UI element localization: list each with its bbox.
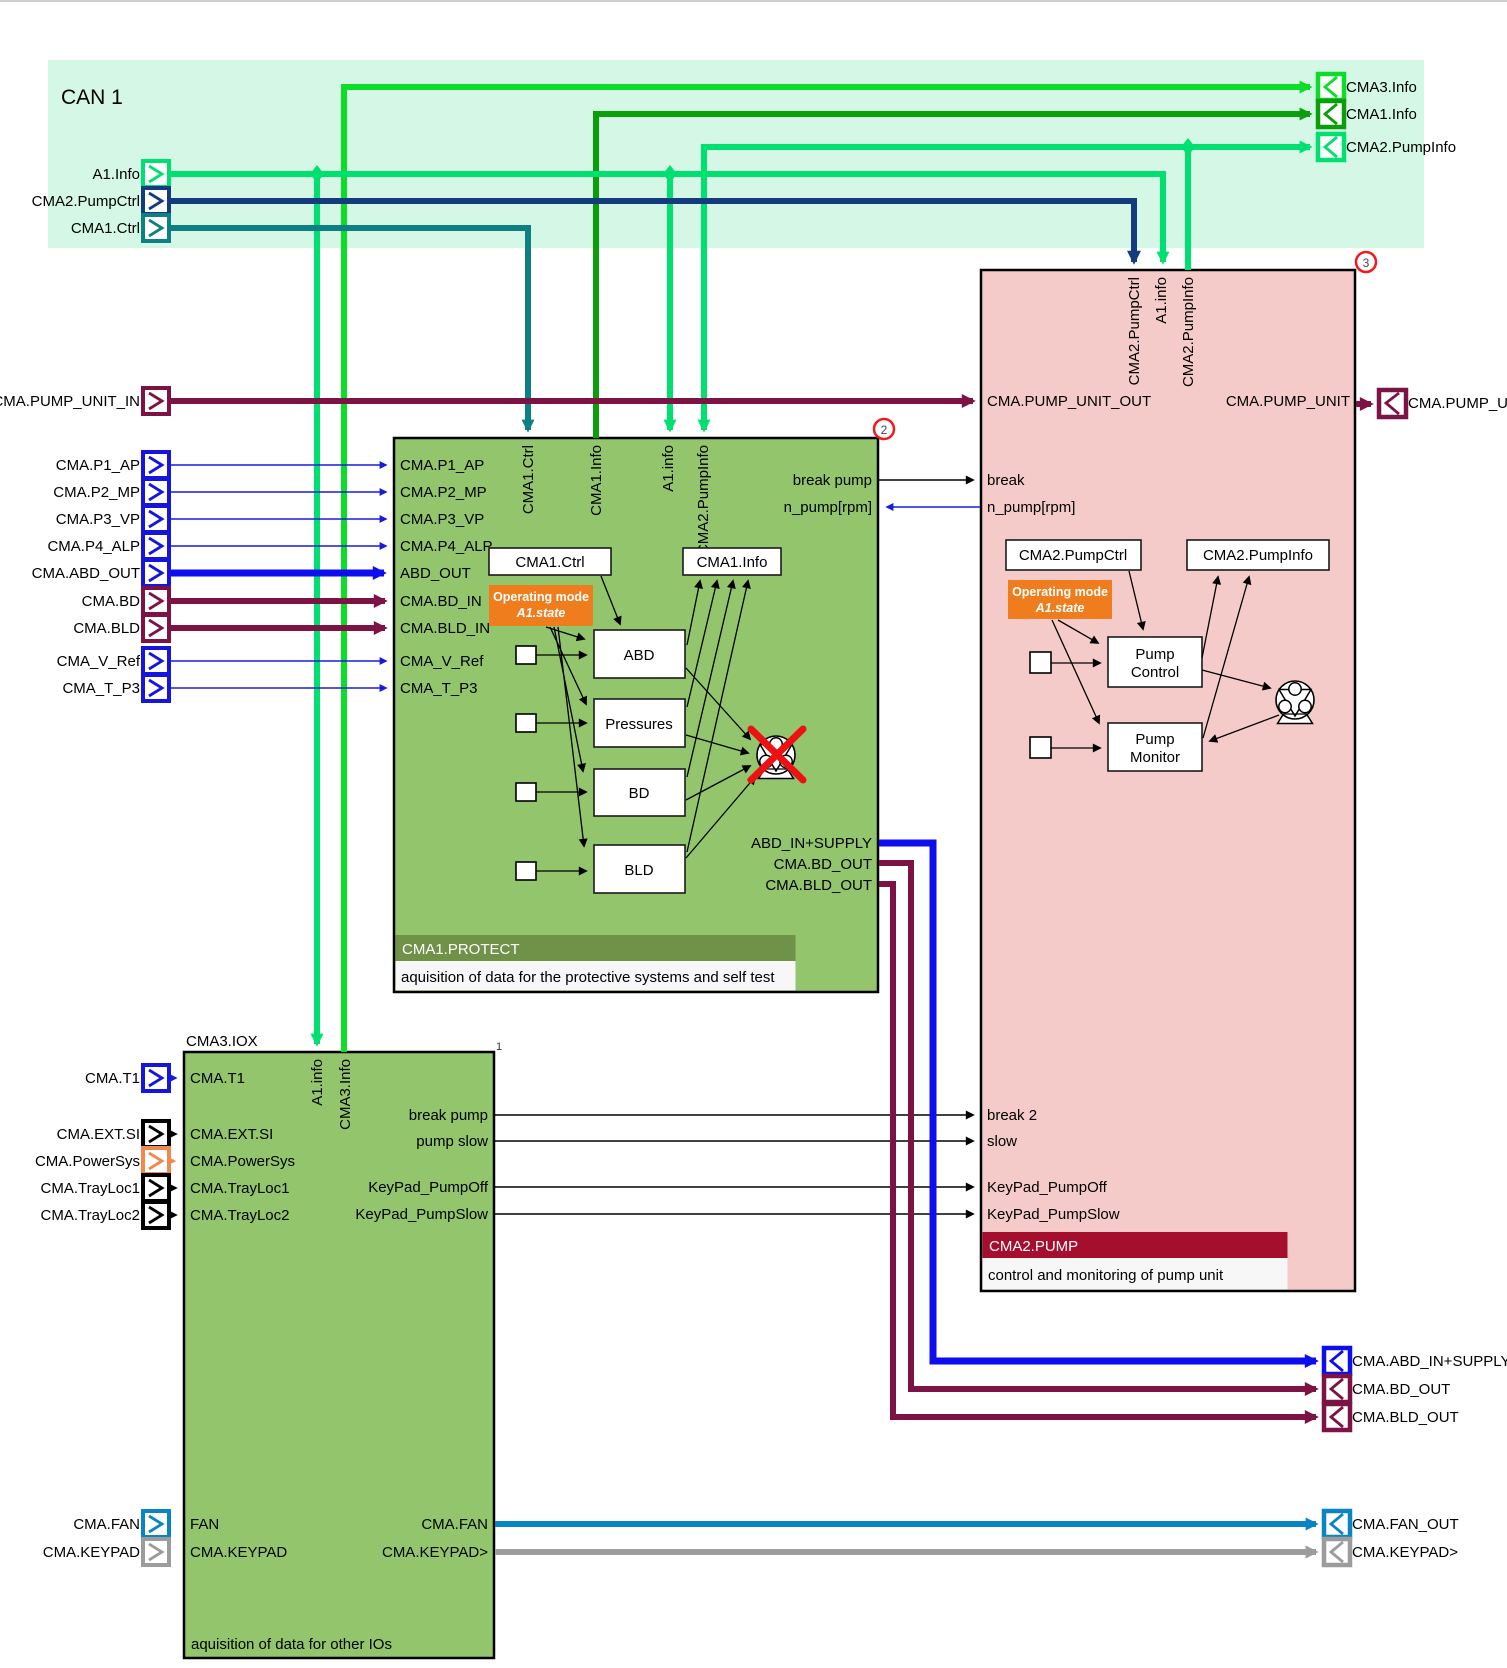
wire CMA3.Info (IOX top to CAN port) — [344, 87, 1310, 1052]
block CMA1.PROTECT — [394, 438, 878, 992]
svg-text:CMA.FAN_OUT: CMA.FAN_OUT — [1352, 1516, 1459, 1533]
svg-text:CMA1.Ctrl: CMA1.Ctrl — [71, 220, 140, 237]
svg-text:CMA.ABD_OUT: CMA.ABD_OUT — [32, 565, 140, 582]
svg-text:CMA2.PUMP: CMA2.PUMP — [989, 1238, 1078, 1255]
svg-text:KeyPad_PumpOff: KeyPad_PumpOff — [368, 1179, 489, 1196]
svg-text:Pump: Pump — [1135, 731, 1174, 748]
port CMA.P4_ALP (input) — [47, 533, 169, 559]
svg-text:CMA.BD_OUT: CMA.BD_OUT — [1352, 1381, 1450, 1398]
port CMA.P3_VP (input) — [56, 506, 169, 532]
wire A1.Info branch to PROTECT — [667, 174, 673, 430]
svg-text:CMA2.PumpInfo: CMA2.PumpInfo — [695, 445, 712, 555]
port CMA.BLD_OUT (output) — [1324, 1404, 1459, 1430]
port CMA1.Info (output) — [1318, 101, 1417, 127]
box Pump Monitor — [1108, 723, 1202, 771]
wire A1.Info branch to CMA3.IOX — [314, 174, 320, 1044]
svg-text:CMA.BLD_IN: CMA.BLD_IN — [400, 620, 490, 637]
wire CMA1.Info (PROTECT top to CAN port) — [596, 114, 1310, 438]
svg-text:slow: slow — [987, 1133, 1017, 1150]
svg-text:CMA.TrayLoc2: CMA.TrayLoc2 — [41, 1207, 140, 1224]
arrow Pump Control to CMA2.PumpInfo — [1202, 577, 1218, 658]
svg-text:CMA_T_P3: CMA_T_P3 — [62, 680, 140, 697]
svg-text:n_pump[rpm]: n_pump[rpm] — [784, 499, 872, 516]
svg-text:CMA1.Info: CMA1.Info — [588, 445, 605, 516]
svg-text:ABD_IN+SUPPLY: ABD_IN+SUPPLY — [751, 835, 872, 852]
svg-text:CMA.FAN: CMA.FAN — [73, 1516, 140, 1533]
port CMA.TrayLoc2 (input) — [41, 1202, 169, 1228]
svg-text:CMA1.Ctrl: CMA1.Ctrl — [520, 445, 537, 514]
svg-text:CMA.TrayLoc2: CMA.TrayLoc2 — [190, 1207, 289, 1224]
port CMA.TrayLoc1 (input) — [41, 1175, 169, 1201]
svg-text:break pump: break pump — [409, 1107, 488, 1124]
arrows Operating mode to ABD/Pressures/BD/BLD — [546, 627, 584, 639]
svg-text:CMA2.PumpCtrl: CMA2.PumpCtrl — [1126, 277, 1143, 385]
svg-text:CMA.PUMP_UNIT_OUT: CMA.PUMP_UNIT_OUT — [987, 393, 1151, 410]
svg-text:CMA.KEYPAD: CMA.KEYPAD — [43, 1544, 140, 1561]
svg-text:KeyPad_PumpOff: KeyPad_PumpOff — [987, 1179, 1108, 1196]
wire KeyPad_PumpOff — [495, 1186, 973, 1188]
svg-text:Pump: Pump — [1135, 646, 1174, 663]
svg-text:CMA.PUMP_UNIT_IN: CMA.PUMP_UNIT_IN — [0, 393, 140, 410]
svg-text:CMA1.Info: CMA1.Info — [697, 554, 768, 571]
port CMA2.PumpCtrl (input) — [32, 188, 169, 214]
wire CMA.BD_OUT (PROTECT to out port) — [879, 863, 1316, 1389]
svg-text:CMA2.PumpCtrl: CMA2.PumpCtrl — [32, 193, 140, 210]
wire CMA.P4_ALP — [169, 545, 386, 547]
svg-text:CMA.KEYPAD: CMA.KEYPAD — [190, 1544, 287, 1561]
pump icon (disabled) — [757, 736, 795, 779]
trigger square pump control — [1030, 652, 1051, 673]
state box Operating mode A1.state — [489, 585, 593, 626]
svg-text:CMA.KEYPAD>: CMA.KEYPAD> — [1352, 1544, 1458, 1561]
svg-text:CMA1.PROTECT: CMA1.PROTECT — [402, 941, 520, 958]
svg-text:CMA_T_P3: CMA_T_P3 — [400, 680, 478, 697]
port CMA.BD (input) — [82, 588, 169, 614]
svg-text:ABD: ABD — [624, 647, 655, 664]
arrow CMA2.PumpCtrl to Pump Control — [1129, 571, 1143, 629]
wire CMA.PUMP_UNIT to out port — [1356, 401, 1371, 407]
wire CMA.EXT.SI — [169, 1133, 176, 1135]
svg-text:Operating mode: Operating mode — [493, 590, 589, 604]
box BLD — [594, 845, 685, 893]
box CMA2.PumpCtrl — [1006, 540, 1141, 570]
svg-text:CMA.FAN: CMA.FAN — [421, 1516, 488, 1533]
svg-text:control and monitoring of pump: control and monitoring of pump unit — [988, 1267, 1224, 1284]
wire break pump (PROTECT to PUMP) — [879, 479, 973, 481]
svg-text:A1.info: A1.info — [660, 445, 677, 492]
svg-text:break: break — [987, 472, 1025, 489]
wire CMA.P1_AP — [169, 464, 386, 466]
svg-text:1: 1 — [496, 1041, 502, 1053]
wire CMA.P3_VP — [169, 518, 386, 520]
arrow pump icon to Pump Monitor — [1210, 715, 1279, 741]
CAN 1 bus band — [48, 60, 1424, 248]
svg-text:A1.info: A1.info — [1153, 277, 1170, 324]
wire CMA.PUMP_UNIT_IN to PUMP — [169, 398, 973, 404]
svg-text:aquisition of data for other I: aquisition of data for other IOs — [191, 1636, 392, 1653]
wire pump slow (IOX to PUMP) — [495, 1140, 973, 1142]
port CMA.T1 (input) — [85, 1065, 169, 1091]
svg-text:CMA.BLD_OUT: CMA.BLD_OUT — [1352, 1409, 1459, 1426]
svg-text:A1.Info: A1.Info — [92, 166, 140, 183]
arrows trigger squares to boxes — [536, 654, 586, 656]
svg-text:KeyPad_PumpSlow: KeyPad_PumpSlow — [355, 1206, 488, 1223]
box CMA1.Ctrl — [489, 548, 611, 575]
trigger square pump monitor — [1030, 737, 1051, 758]
svg-text:CMA1.Info: CMA1.Info — [1346, 106, 1417, 123]
wire KeyPad_PumpSlow — [495, 1213, 973, 1215]
svg-text:CMA.PowerSys: CMA.PowerSys — [190, 1153, 295, 1170]
wire CMA2.PumpInfo (PUMP top to CAN port) — [1188, 147, 1310, 270]
trigger square 4 — [516, 862, 536, 880]
block CMA3.IOX — [184, 1052, 494, 1658]
svg-text:ABD_OUT: ABD_OUT — [400, 565, 471, 582]
port CMA3.Info (output) — [1318, 74, 1417, 100]
svg-text:Operating mode: Operating mode — [1012, 585, 1108, 599]
wire A1.Info main (CAN port to PUMP) — [169, 174, 1163, 262]
box CMA2.PumpInfo — [1187, 540, 1329, 570]
svg-text:CMA.TrayLoc1: CMA.TrayLoc1 — [41, 1180, 140, 1197]
svg-text:CMA.P4_ALP: CMA.P4_ALP — [400, 538, 493, 555]
port CMA1.Ctrl (input) — [71, 215, 169, 241]
svg-text:CMA3.Info: CMA3.Info — [337, 1059, 354, 1130]
junction on A1.Info at x=317 — [310, 165, 324, 183]
svg-text:CMA2.PumpInfo: CMA2.PumpInfo — [1180, 277, 1197, 387]
wire n_pump[rpm] (PUMP to PROTECT) — [887, 506, 980, 508]
state box Operating mode A1.state (pink block) — [1008, 580, 1112, 619]
svg-text:CMA3.Info: CMA3.Info — [1346, 79, 1417, 96]
port CMA.PUMP_UNIT (output) — [1379, 390, 1507, 417]
svg-text:CMA3.IOX: CMA3.IOX — [186, 1033, 258, 1050]
svg-text:CMA.EXT.SI: CMA.EXT.SI — [57, 1126, 140, 1143]
wire CMA.T1 — [169, 1077, 176, 1079]
badge 3 — [1356, 252, 1376, 272]
wire CMA_V_Ref — [169, 660, 386, 662]
block CMA2.PUMP — [981, 270, 1355, 1291]
svg-text:Monitor: Monitor — [1130, 749, 1180, 766]
arrow CMA1.Ctrl to ABD — [601, 576, 620, 624]
wire CMA.P2_MP — [169, 491, 386, 493]
arrows boxes to pump icon — [686, 668, 750, 739]
wire CMA2.PumpInfo branch to PROTECT — [704, 147, 1188, 430]
wire CMA.FAN (IOX to out port) — [495, 1521, 1316, 1527]
svg-text:CMA.P1_AP: CMA.P1_AP — [56, 457, 140, 474]
port CMA.EXT.SI (input) — [57, 1121, 169, 1147]
box Pressures — [594, 699, 685, 747]
arrow Pump Control to pump icon — [1202, 670, 1270, 688]
port CMA.FAN_OUT (output) — [1324, 1511, 1459, 1537]
badge 2 — [874, 419, 894, 439]
wire CMA_T_P3 — [169, 687, 386, 689]
port CMA.ABD_OUT (input) — [32, 560, 169, 586]
svg-text:FAN: FAN — [190, 1516, 219, 1533]
svg-text:CMA2.PumpInfo: CMA2.PumpInfo — [1203, 547, 1313, 564]
svg-text:CMA.EXT.SI: CMA.EXT.SI — [190, 1126, 273, 1143]
pin labels left inside CMA1.PROTECT — [400, 457, 493, 697]
wire CMA.PowerSys — [169, 1160, 174, 1163]
svg-text:A1.state: A1.state — [1035, 601, 1085, 615]
top window border line — [0, 0, 1507, 2]
svg-text:CAN 1: CAN 1 — [61, 86, 123, 109]
wire CMA.BLD_OUT (PROTECT to out port) — [879, 884, 1316, 1417]
svg-text:CMA.BD_IN: CMA.BD_IN — [400, 593, 482, 610]
port CMA_T_P3 (input) — [62, 675, 169, 701]
svg-text:CMA.T1: CMA.T1 — [190, 1070, 245, 1087]
junction on CMA2.PumpInfo at x=1188 — [1181, 138, 1195, 156]
port CMA.ABD_IN+SUPPLY (output) — [1324, 1348, 1507, 1374]
svg-text:CMA.PUMP_UNIT: CMA.PUMP_UNIT — [1408, 395, 1507, 412]
arrows boxes to CMA1.Info — [687, 581, 700, 645]
svg-text:CMA.P3_VP: CMA.P3_VP — [56, 511, 140, 528]
svg-text:Pressures: Pressures — [605, 716, 673, 733]
port CMA.PowerSys (input) — [35, 1148, 169, 1174]
svg-text:2: 2 — [881, 423, 888, 437]
svg-text:Control: Control — [1131, 664, 1179, 681]
port A1.Info (input) — [92, 161, 169, 187]
svg-text:CMA_V_Ref: CMA_V_Ref — [57, 653, 141, 670]
box ABD — [594, 630, 685, 678]
pin labels CMA3.IOX — [190, 1070, 489, 1561]
port CMA.FAN (input) — [73, 1511, 169, 1537]
wire ABD_IN+SUPPLY (PROTECT to out port) — [879, 843, 1316, 1361]
svg-text:CMA.KEYPAD>: CMA.KEYPAD> — [382, 1544, 488, 1561]
port CMA_V_Ref (input) — [57, 648, 169, 674]
port CMA.BD_OUT (output) — [1324, 1376, 1450, 1402]
svg-text:CMA.P2_MP: CMA.P2_MP — [53, 484, 140, 501]
wire CMA.TrayLoc1 — [169, 1187, 176, 1189]
box CMA1.Info — [683, 548, 781, 575]
svg-text:CMA.BD_OUT: CMA.BD_OUT — [774, 856, 872, 873]
red X over pump — [751, 729, 803, 780]
arrow Pump Monitor to CMA2.PumpInfo — [1203, 577, 1249, 738]
svg-text:pump slow: pump slow — [416, 1133, 488, 1150]
svg-text:CMA.T1: CMA.T1 — [85, 1070, 140, 1087]
svg-text:A1.state: A1.state — [516, 606, 566, 620]
svg-text:break pump: break pump — [793, 472, 872, 489]
trigger square 1 — [516, 646, 536, 664]
svg-text:aquisition of data for the pro: aquisition of data for the protective sy… — [401, 969, 775, 986]
wire CMA1.Ctrl (CAN port to PROTECT) — [169, 228, 528, 430]
svg-text:CMA2.PumpInfo: CMA2.PumpInfo — [1346, 139, 1456, 156]
svg-text:KeyPad_PumpSlow: KeyPad_PumpSlow — [987, 1206, 1120, 1223]
svg-text:BD: BD — [629, 785, 650, 802]
wire CMA.ABD_OUT — [169, 570, 384, 577]
wire CMA.KEYPAD (IOX to out port) — [495, 1549, 1316, 1555]
svg-text:BLD: BLD — [624, 862, 653, 879]
port CMA2.PumpInfo (output) — [1318, 134, 1456, 160]
svg-text:CMA.P1_AP: CMA.P1_AP — [400, 457, 484, 474]
svg-text:CMA.ABD_IN+SUPPLY: CMA.ABD_IN+SUPPLY — [1352, 1353, 1507, 1370]
pump icon (pink block) — [1276, 681, 1314, 724]
port CMA.P2_MP (input) — [53, 479, 169, 505]
wire break pump 2 (IOX to PUMP) — [495, 1114, 973, 1116]
junction on A1.Info at x=670 — [663, 165, 677, 183]
svg-text:break 2: break 2 — [987, 1107, 1037, 1124]
svg-text:CMA.P3_VP: CMA.P3_VP — [400, 511, 484, 528]
svg-text:CMA.BD: CMA.BD — [82, 593, 141, 610]
svg-text:n_pump[rpm]: n_pump[rpm] — [987, 499, 1075, 516]
port CMA.BLD (input) — [73, 615, 169, 641]
svg-text:CMA2.PumpCtrl: CMA2.PumpCtrl — [1019, 547, 1127, 564]
port CMA.P1_AP (input) — [56, 452, 169, 478]
svg-text:CMA.BLD_OUT: CMA.BLD_OUT — [765, 877, 872, 894]
box Pump Control — [1108, 637, 1202, 687]
svg-text:A1.info: A1.info — [309, 1059, 326, 1106]
svg-text:CMA.PUMP_UNIT: CMA.PUMP_UNIT — [1226, 393, 1350, 410]
port CMA.KEYPAD (input) — [43, 1539, 169, 1565]
wire CMA2.PumpCtrl (CAN port to PUMP) — [169, 201, 1134, 262]
arrows trigger squares — [1051, 662, 1100, 664]
svg-text:CMA.P4_ALP: CMA.P4_ALP — [47, 538, 140, 555]
svg-text:CMA.PowerSys: CMA.PowerSys — [35, 1153, 140, 1170]
port CMA.PUMP_UNIT_IN (input) — [0, 388, 169, 414]
wire CMA.BD — [169, 598, 385, 604]
trigger square 3 — [516, 783, 536, 801]
svg-text:3: 3 — [1363, 256, 1370, 270]
box BD — [594, 769, 685, 816]
trigger square 2 — [516, 714, 536, 732]
svg-text:CMA_V_Ref: CMA_V_Ref — [400, 653, 484, 670]
arrows Operating mode to Pump Control / Pump Monitor — [1058, 620, 1098, 643]
svg-text:CMA.BLD: CMA.BLD — [73, 620, 140, 637]
pin labels CMA2.PUMP — [987, 393, 1350, 1223]
wire CMA.TrayLoc2 — [169, 1214, 176, 1216]
svg-text:CMA1.Ctrl: CMA1.Ctrl — [515, 554, 584, 571]
port CMA.KEYPAD&gt; (output) — [1324, 1539, 1458, 1565]
svg-text:CMA.P2_MP: CMA.P2_MP — [400, 484, 487, 501]
wire CMA.BLD — [169, 625, 385, 631]
pin labels right inside CMA1.PROTECT — [751, 472, 872, 894]
svg-text:CMA.TrayLoc1: CMA.TrayLoc1 — [190, 1180, 289, 1197]
